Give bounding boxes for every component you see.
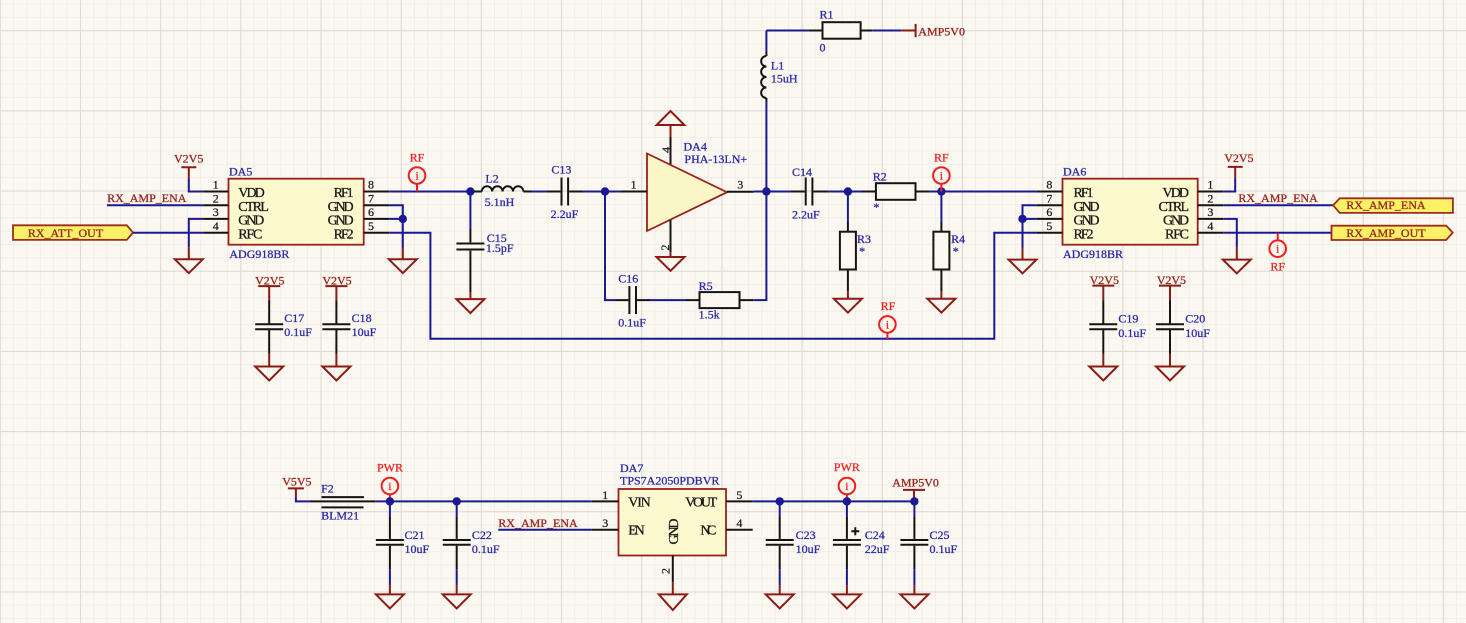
- ground (C17): [255, 354, 283, 381]
- junction node R3: [844, 187, 852, 195]
- svg-text:C19: C19: [1118, 312, 1138, 326]
- svg-text:4: 4: [1207, 219, 1213, 233]
- ground (DA6 pins 6,7): [1009, 248, 1037, 274]
- svg-text:C22: C22: [472, 528, 492, 542]
- svg-text:DA6: DA6: [1063, 164, 1086, 178]
- svg-text:C18: C18: [352, 311, 372, 325]
- svg-text:C24: C24: [865, 528, 885, 542]
- wire F2 to DA7 pin1: [375, 500, 591, 502]
- wire DA7 pin5 to rail: [753, 500, 915, 502]
- svg-text:0.1uF: 0.1uF: [472, 542, 500, 556]
- pin 2 DA7: [659, 556, 673, 583]
- svg-text:5: 5: [368, 219, 374, 233]
- capacitor C25: [900, 501, 957, 569]
- pin 4 DA6: [1198, 219, 1224, 233]
- svg-text:10uF: 10uF: [405, 542, 430, 556]
- pin 5 DA5: [364, 219, 390, 233]
- junction node C25: [910, 497, 918, 505]
- ground (C20): [1156, 354, 1184, 381]
- junction node R4: [937, 187, 945, 195]
- ground (C24): [833, 585, 861, 608]
- pin 1 DA7: [592, 488, 619, 502]
- junction node DA6 gnd: [1018, 215, 1026, 223]
- svg-text:1.5k: 1.5k: [699, 308, 720, 322]
- ground (C22): [443, 585, 471, 608]
- svg-text:RF2: RF2: [1074, 227, 1094, 242]
- svg-text:6: 6: [368, 205, 374, 219]
- svg-text:C25: C25: [930, 528, 950, 542]
- svg-text:i: i: [940, 169, 944, 183]
- port RX_ATT_OUT: [13, 225, 133, 240]
- capacitor C22: [443, 501, 500, 569]
- pin 5 DA6: [1036, 219, 1062, 233]
- test point PWR 2: [834, 460, 860, 501]
- resistor R3: [840, 192, 871, 292]
- svg-text:C14: C14: [792, 165, 812, 179]
- svg-text:1: 1: [1207, 178, 1213, 192]
- svg-text:2: 2: [658, 245, 672, 251]
- svg-text:C17: C17: [284, 311, 304, 325]
- pin 7 DA6: [1036, 191, 1062, 205]
- pin 2 DA4: [658, 220, 672, 252]
- wire V2V5 to DA6 pin1: [1223, 178, 1235, 191]
- svg-text:GND: GND: [667, 519, 682, 545]
- svg-text:2.2uF: 2.2uF: [792, 208, 820, 222]
- svg-text:6: 6: [1046, 205, 1052, 219]
- pin 3 DA4: [727, 178, 766, 192]
- svg-text:RX_ATT_OUT: RX_ATT_OUT: [28, 226, 104, 240]
- svg-text:1: 1: [213, 178, 219, 192]
- svg-text:ADG918BR: ADG918BR: [1063, 247, 1123, 261]
- svg-text:4: 4: [213, 219, 219, 233]
- pin 2 DA5: [203, 191, 228, 205]
- wire V2V5 to DA5 pin1: [189, 179, 203, 192]
- pin 2 DA6: [1198, 191, 1224, 205]
- test point RF 3: [879, 299, 896, 339]
- svg-text:7: 7: [368, 191, 374, 205]
- svg-text:AMP5V0: AMP5V0: [892, 475, 939, 489]
- svg-text:10uF: 10uF: [796, 542, 821, 556]
- svg-text:VIN: VIN: [628, 496, 651, 511]
- pin 6 DA5: [364, 205, 390, 219]
- test point RF 2: [933, 151, 950, 192]
- op-amp DA4: [647, 140, 747, 231]
- svg-text:i: i: [415, 169, 419, 183]
- svg-text:C23: C23: [796, 528, 816, 542]
- junction node DA5 gnd dot: [399, 215, 407, 223]
- pin 8 DA5: [364, 178, 390, 192]
- svg-text:3: 3: [737, 178, 743, 192]
- ground (C19): [1089, 354, 1117, 381]
- resistor R5: [686, 279, 753, 322]
- op-amp chip DA5: [229, 164, 364, 261]
- svg-text:ADG918BR: ADG918BR: [229, 247, 289, 261]
- ground (DA5 pins 6,7): [389, 248, 417, 274]
- svg-text:5: 5: [736, 488, 742, 502]
- wire RX_ATT_OUT to DA5 pin4: [133, 232, 203, 234]
- ground (C15): [456, 292, 484, 313]
- svg-text:PWR: PWR: [834, 460, 860, 474]
- wire RX_AMP_ENA to DA5 pin2: [107, 204, 203, 206]
- power arrow (DA4 pin4): [657, 111, 685, 137]
- svg-text:RF2: RF2: [334, 227, 354, 242]
- capacitor C13: [547, 163, 583, 221]
- voltage regulator DA7: [619, 461, 727, 555]
- power port AMP5V0 top: [901, 24, 965, 38]
- ground (C23): [766, 585, 794, 608]
- svg-text:10uF: 10uF: [1185, 326, 1210, 340]
- wire C21 to ground: [389, 569, 391, 585]
- ground (R3): [834, 291, 862, 313]
- pin 7 DA5: [364, 191, 390, 205]
- svg-text:1: 1: [631, 178, 637, 192]
- svg-text:3: 3: [602, 516, 608, 530]
- wire V5V5 to F2: [296, 498, 311, 502]
- wire DA6 pins 7,6 to ground: [1023, 205, 1037, 247]
- capacitor C23: [766, 501, 821, 569]
- svg-text:0: 0: [820, 40, 826, 54]
- pin 8 DA6: [1036, 178, 1062, 192]
- pin 1 DA6: [1198, 178, 1224, 192]
- pin 3 DA6: [1198, 205, 1224, 219]
- ground (DA5 pin3): [175, 247, 203, 273]
- svg-text:RFC: RFC: [1165, 227, 1189, 242]
- capacitor C19: [1089, 300, 1146, 353]
- junction node C23: [776, 497, 784, 505]
- ground (C25): [900, 585, 928, 608]
- svg-text:BLM21: BLM21: [321, 509, 359, 523]
- svg-text:0.1uF: 0.1uF: [284, 325, 312, 339]
- svg-text:2: 2: [1207, 191, 1213, 205]
- power port V2V5 (C17): [255, 273, 284, 300]
- svg-text:RX_AMP_OUT: RX_AMP_OUT: [1346, 226, 1426, 240]
- wire C24 to ground: [846, 569, 848, 585]
- pin 4 DA5: [203, 219, 228, 233]
- op-amp chip DA6: [1063, 164, 1198, 261]
- svg-text:RF: RF: [934, 151, 949, 165]
- junction node C24: [843, 497, 851, 505]
- svg-text:4: 4: [736, 516, 742, 530]
- wire DA6 pin3 to ground: [1223, 219, 1237, 248]
- svg-text:AMP5V0: AMP5V0: [918, 24, 965, 38]
- wire DA6 pin2 to port: [1223, 204, 1333, 206]
- svg-text:C16: C16: [618, 272, 638, 286]
- svg-text:C13: C13: [551, 163, 571, 177]
- svg-text:4: 4: [659, 147, 673, 153]
- resistor R4: [933, 192, 965, 292]
- wire node to C14: [766, 191, 791, 193]
- ground (DA6 pin3): [1223, 248, 1251, 274]
- capacitor C18: [322, 300, 376, 353]
- svg-text:V5V5: V5V5: [282, 474, 311, 488]
- capacitor C14: [791, 165, 828, 222]
- svg-text:PHA-13LN+: PHA-13LN+: [684, 152, 747, 166]
- pin 4 DA7: [726, 516, 753, 530]
- svg-text:RF: RF: [881, 299, 896, 313]
- power port V2V5 (DA6): [1224, 151, 1253, 178]
- svg-text:i: i: [886, 317, 890, 331]
- power port V2V5 (DA5): [174, 152, 203, 180]
- power port V5V5: [282, 474, 311, 497]
- svg-text:5.1nH: 5.1nH: [485, 195, 515, 209]
- capacitor C24 polarized: [833, 501, 890, 569]
- ground (C18): [322, 354, 350, 381]
- svg-text:0.1uF: 0.1uF: [1118, 326, 1146, 340]
- test point RF 1: [409, 151, 426, 192]
- capacitor C20: [1156, 300, 1210, 353]
- svg-text:i: i: [845, 479, 849, 493]
- power port V2V5 (C19): [1090, 273, 1119, 300]
- svg-text:TPS7A2050PDBVR: TPS7A2050PDBVR: [620, 474, 719, 488]
- pin 3 DA5: [203, 205, 228, 219]
- junction node DA4 output: [762, 187, 770, 195]
- svg-text:L2: L2: [485, 171, 498, 185]
- svg-text:10uF: 10uF: [352, 325, 377, 339]
- svg-text:5: 5: [1046, 219, 1052, 233]
- wire C16 to R5: [650, 299, 686, 301]
- power port AMP5V0 bottom: [892, 475, 939, 501]
- svg-text:i: i: [1276, 242, 1280, 256]
- svg-text:C20: C20: [1185, 312, 1205, 326]
- svg-text:*: *: [859, 244, 865, 258]
- wire DA5 pin3 to ground: [189, 219, 203, 247]
- svg-text:NC: NC: [700, 524, 716, 539]
- svg-text:*: *: [953, 244, 959, 258]
- svg-text:V2V5: V2V5: [1224, 151, 1253, 165]
- svg-text:22uF: 22uF: [865, 542, 890, 556]
- ground (DA7 pin2): [659, 582, 687, 610]
- pin 4 DA4: [659, 137, 673, 166]
- svg-text:2: 2: [213, 191, 219, 205]
- pin 5 DA7: [726, 488, 753, 502]
- wire DA5 pin5 RF2 return line: [389, 233, 1036, 339]
- ground (R4): [927, 291, 955, 313]
- svg-text:i: i: [388, 479, 392, 493]
- wire L2 to C13: [532, 191, 547, 193]
- svg-text:L1: L1: [771, 58, 784, 72]
- ground (DA4 pin2): [657, 252, 685, 270]
- pin 3 DA7: [592, 516, 619, 530]
- test point RF 4: [1269, 233, 1286, 274]
- svg-text:EN: EN: [628, 524, 645, 539]
- wire DA5 pins 7,6 to ground: [389, 205, 403, 247]
- svg-text:R5: R5: [699, 279, 713, 293]
- wire C22 to ground: [456, 569, 458, 585]
- test point PWR 1: [377, 460, 403, 501]
- svg-text:8: 8: [1046, 178, 1052, 192]
- pin 1 DA5: [203, 178, 228, 192]
- wire C13 to node: [583, 191, 620, 193]
- resistor R2: [862, 170, 929, 215]
- svg-text:RF: RF: [410, 151, 425, 165]
- svg-text:1.5pF: 1.5pF: [486, 241, 514, 255]
- svg-text:F2: F2: [321, 482, 334, 496]
- wire R2 to R4 node / DA6: [929, 191, 1036, 193]
- junction node C15: [466, 187, 474, 195]
- svg-text:R2: R2: [873, 170, 887, 184]
- wire R5 to output node: [753, 192, 766, 301]
- wire R1 to AMP5V0: [872, 30, 901, 32]
- wire RX_AMP_ENA to DA7 pin3: [498, 529, 592, 531]
- svg-text:7: 7: [1046, 191, 1052, 205]
- svg-text:3: 3: [1207, 205, 1213, 219]
- wire DA6 pin4 to port: [1223, 232, 1331, 234]
- power port V2V5 (C18): [322, 273, 351, 300]
- svg-text:DA5: DA5: [229, 164, 252, 178]
- capacitor C15: [456, 192, 514, 293]
- svg-text:RX_AMP_ENA: RX_AMP_ENA: [498, 516, 578, 530]
- svg-text:RF: RF: [1270, 259, 1285, 273]
- inductor L1: [761, 31, 798, 192]
- pin 6 DA6: [1036, 205, 1062, 219]
- svg-text:3: 3: [213, 205, 219, 219]
- ground (C21): [376, 585, 404, 608]
- wire feedback branch down: [605, 192, 616, 301]
- port RX_AMP_OUT: [1332, 226, 1453, 240]
- svg-text:V2V5: V2V5: [174, 152, 203, 166]
- svg-text:1: 1: [602, 488, 608, 502]
- ferrite bead F2: [311, 482, 376, 523]
- svg-text:0.1uF: 0.1uF: [930, 542, 958, 556]
- svg-text:C21: C21: [405, 528, 425, 542]
- resistor R1: [808, 8, 872, 55]
- svg-text:PWR: PWR: [377, 460, 403, 474]
- svg-text:RX_AMP_ENA: RX_AMP_ENA: [107, 191, 187, 205]
- power port V2V5 (C20): [1157, 273, 1186, 300]
- svg-text:0.1uF: 0.1uF: [618, 315, 646, 329]
- svg-text:2: 2: [659, 568, 673, 574]
- svg-text:RFC: RFC: [238, 227, 262, 242]
- svg-text:15uH: 15uH: [771, 71, 798, 85]
- wire DA5 pin8 RF net: [389, 191, 470, 193]
- junction node C22: [453, 497, 461, 505]
- inductor L2: [474, 171, 532, 208]
- svg-text:8: 8: [368, 178, 374, 192]
- svg-text:RX_AMP_ENA: RX_AMP_ENA: [1346, 198, 1426, 212]
- svg-text:R1: R1: [820, 8, 834, 22]
- svg-text:2.2uF: 2.2uF: [551, 207, 579, 221]
- svg-text:RX_AMP_ENA: RX_AMP_ENA: [1238, 191, 1318, 205]
- wire top rail to R1: [766, 30, 808, 32]
- svg-text:*: *: [873, 200, 879, 214]
- capacitor C17: [255, 300, 312, 353]
- pin 1 DA4: [605, 178, 647, 192]
- svg-text:VOUT: VOUT: [685, 496, 717, 511]
- junction node feedback: [601, 187, 609, 195]
- wire C14 to R2 node: [828, 191, 863, 193]
- wire C25 to ground: [913, 569, 915, 585]
- capacitor C16: [616, 272, 651, 330]
- capacitor C21: [376, 501, 430, 569]
- wire C23 to ground: [779, 569, 781, 585]
- port RX_AMP_ENA: [1333, 198, 1453, 213]
- junction node C21: [386, 497, 394, 505]
